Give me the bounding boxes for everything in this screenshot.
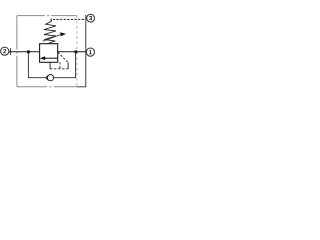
pilot drop from box bottom right (59, 62, 61, 68)
label 2 (port 2 number) (3, 49, 6, 53)
port 2 circle (1, 47, 9, 55)
drain line right leg up to port1 node (54, 52, 76, 78)
label 1 (port 1 number) (89, 50, 92, 54)
wire: port 2 to valve box (9, 51, 40, 53)
port 2 tick (10, 48, 12, 55)
valve envelope top edge (cartridge boundary, dash-dot) (17, 15, 77, 17)
node at port 1 branch (74, 50, 77, 53)
envelope bottom edge (17, 86, 77, 88)
dashed pilot horizontal under box (50, 68, 68, 70)
pilot corner vertical (67, 62, 69, 69)
wire: valve box to port 1 (58, 51, 86, 53)
port 1 circle (86, 48, 94, 56)
check valve seat (46, 75, 49, 80)
check valve ball (47, 75, 53, 81)
drain line left leg from port2 node (28, 52, 45, 78)
valve body box (40, 44, 58, 63)
spring (adjustable) above box (44, 19, 56, 44)
node at port 2 branch (27, 50, 30, 53)
label 3 (port 3 number) (89, 16, 92, 20)
spring adjustment arrow (43, 32, 67, 41)
port 3 circle (87, 14, 95, 22)
pilot/drain dashed line from spring top to external line (51, 19, 86, 21)
external connection line ports 3-1 (77, 15, 86, 87)
envelope left edge (16, 16, 18, 87)
dashed pilot: port1 tap diagonal down (58, 52, 68, 62)
envelope right edge (76, 16, 78, 87)
pilot drop from box bottom left (49, 62, 51, 69)
flow arrow in box (points left) (40, 56, 58, 60)
